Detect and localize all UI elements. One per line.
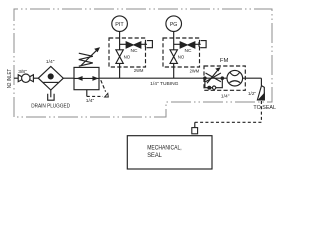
- svg-text:MECHANICAL,: MECHANICAL,: [147, 145, 182, 152]
- svg-text:1/4": 1/4": [86, 98, 95, 103]
- svg-text:TO SEAL: TO SEAL: [253, 105, 276, 111]
- svg-text:NO: NO: [124, 55, 131, 60]
- svg-text:SEAL: SEAL: [147, 152, 162, 159]
- svg-text:FM: FM: [220, 58, 229, 64]
- svg-text:NC: NC: [185, 48, 193, 53]
- svg-text:PG: PG: [170, 22, 178, 28]
- svg-text:1/2": 1/2": [248, 91, 256, 96]
- svg-text:NO: NO: [178, 55, 185, 60]
- svg-text:NC: NC: [131, 48, 139, 53]
- svg-text:PIT: PIT: [115, 22, 124, 28]
- svg-text:2WM: 2WM: [134, 68, 144, 73]
- svg-text:2WM: 2WM: [190, 69, 200, 74]
- svg-text:DRAIN PLUGGED: DRAIN PLUGGED: [31, 103, 70, 109]
- svg-text:3/8": 3/8": [18, 69, 27, 74]
- svg-text:1/4" TUBING: 1/4" TUBING: [150, 81, 178, 87]
- svg-text:1/4": 1/4": [46, 59, 55, 64]
- svg-text:N2 INLET: N2 INLET: [7, 69, 13, 88]
- svg-text:1/4": 1/4": [221, 93, 230, 98]
